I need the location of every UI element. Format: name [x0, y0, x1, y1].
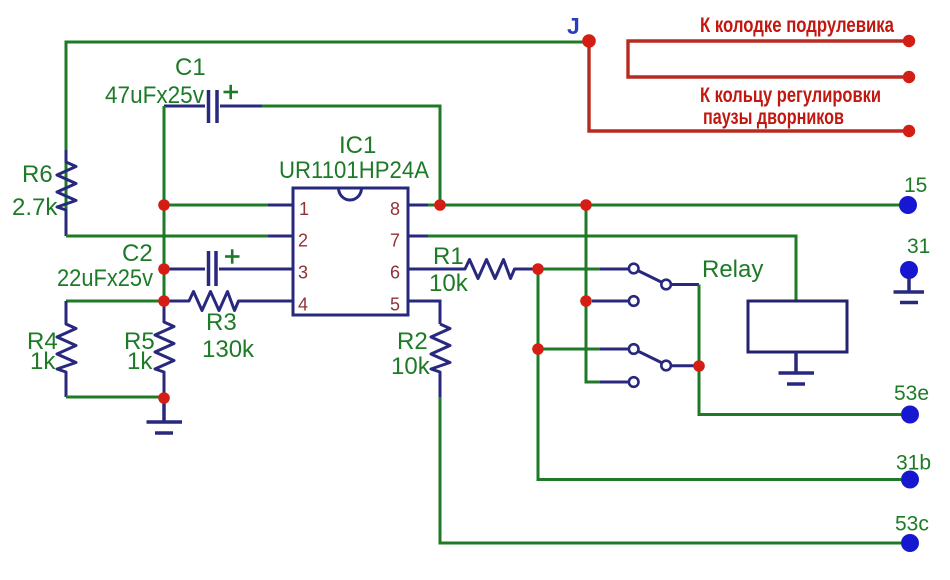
junction dot C2 [158, 263, 170, 275]
svg-text:R3: R3 [206, 309, 237, 336]
resistor R2 [431, 324, 450, 397]
resistor R4 [57, 301, 76, 397]
wire pin8 row to terminal 15 [408, 204, 900, 207]
svg-text:UR1101HP24A: UR1101HP24A [279, 157, 429, 184]
red terminal dot row2 [903, 71, 915, 83]
terminal 31 [900, 261, 918, 279]
svg-text:C2: C2 [122, 240, 153, 267]
svg-text:2: 2 [298, 231, 308, 251]
wire sw1 feed [538, 268, 600, 271]
svg-text:53e: 53e [894, 382, 929, 405]
resistor R5 [155, 301, 174, 398]
svg-text:7: 7 [390, 231, 400, 251]
svg-text:1k: 1k [127, 348, 153, 375]
svg-text:10k: 10k [391, 353, 431, 380]
switch S1 [600, 264, 699, 290]
svg-text:паузы дворников: паузы дворников [703, 106, 844, 129]
svg-text:К колодке подрулевика: К колодке подрулевика [700, 14, 894, 37]
svg-text:47uFx25v: 47uFx25v [105, 82, 204, 109]
resistor R1 [408, 260, 538, 279]
terminal 53c [901, 534, 919, 552]
svg-text:10k: 10k [429, 270, 469, 297]
wire pin2 row [66, 235, 270, 238]
wire vertical x=164 C1 to R5 [163, 106, 166, 301]
svg-text:130k: 130k [202, 336, 255, 363]
switch S2 NC contact [600, 377, 639, 387]
capacitor C2 [164, 251, 293, 286]
junction dot R1 out [532, 263, 544, 275]
terminal 15 [899, 196, 917, 214]
ground under R5 [147, 398, 183, 433]
svg-text:IC1: IC1 [339, 132, 376, 159]
svg-text:1k: 1k [30, 348, 56, 375]
svg-text:R2: R2 [397, 328, 428, 355]
terminal 31b [901, 471, 919, 489]
svg-text:31b: 31b [896, 452, 931, 475]
junction dot sw2 out [693, 360, 705, 372]
svg-text:31: 31 [907, 235, 930, 258]
resistor R6 [57, 150, 76, 236]
junction dot J [582, 34, 596, 48]
svg-text:4: 4 [298, 295, 308, 315]
red terminal dot row3 [903, 125, 915, 137]
junction dot x586 [580, 295, 592, 307]
pin8 stub [408, 204, 428, 207]
resistor R3 [164, 292, 293, 311]
IC IC1 box [293, 188, 408, 315]
wire pin5 to R2 [408, 301, 440, 324]
svg-text:8: 8 [390, 199, 400, 219]
wire R4 top [66, 300, 164, 303]
junction dot pin8 [434, 199, 446, 211]
wire top from R6 top to J [66, 42, 583, 236]
wire R2 bottom to 53c [440, 397, 901, 543]
svg-text:Relay: Relay [702, 256, 763, 283]
junction dot x586 on 15 wire [580, 199, 592, 211]
wire x699 down to 53e [699, 285, 901, 415]
plus sign C1 [224, 85, 239, 99]
svg-text:2.7k: 2.7k [12, 194, 58, 221]
pin7 stub [408, 235, 428, 238]
ground under relay [779, 352, 815, 384]
relay coil [748, 301, 847, 352]
switch S1 NC contact [592, 296, 639, 306]
terminal 53e [901, 406, 919, 424]
red wire J down to connector [589, 45, 903, 131]
svg-text:53c: 53c [895, 513, 929, 536]
wire R4 bottom [66, 396, 164, 399]
svg-text:К кольцу регулировки: К кольцу регулировки [700, 84, 881, 107]
wire x586 down [586, 205, 600, 382]
junction dot x538/sw2 [532, 343, 544, 355]
svg-text:3: 3 [298, 263, 308, 283]
svg-text:1: 1 [299, 199, 309, 219]
wire pin7 to relay [408, 236, 796, 301]
pin2 stub [268, 235, 293, 238]
wire x538 down to 31b [538, 269, 901, 480]
wire sw2 feed [538, 348, 600, 351]
junction dot R3/R5 [158, 295, 170, 307]
svg-text:J: J [567, 13, 580, 39]
plus sign C2 [225, 249, 240, 263]
pin1 stub [268, 204, 293, 207]
svg-text:C1: C1 [175, 54, 206, 81]
switch S2 [600, 344, 695, 370]
svg-text:R6: R6 [22, 161, 53, 188]
red terminal dot row1 [903, 35, 915, 47]
svg-text:6: 6 [390, 263, 400, 283]
svg-text:15: 15 [904, 174, 927, 197]
wire pin1 row [164, 204, 270, 207]
junction dot ground [158, 392, 170, 404]
svg-text:R1: R1 [433, 243, 464, 270]
svg-text:22uFx25v: 22uFx25v [57, 265, 153, 292]
svg-text:5: 5 [390, 295, 400, 315]
red wire upper connector [628, 41, 903, 77]
junction dot pin1/x164 [158, 199, 170, 211]
capacitor C1 [164, 90, 263, 123]
ground under 31 [894, 278, 925, 303]
wire C1 right to pin8 [262, 106, 440, 205]
